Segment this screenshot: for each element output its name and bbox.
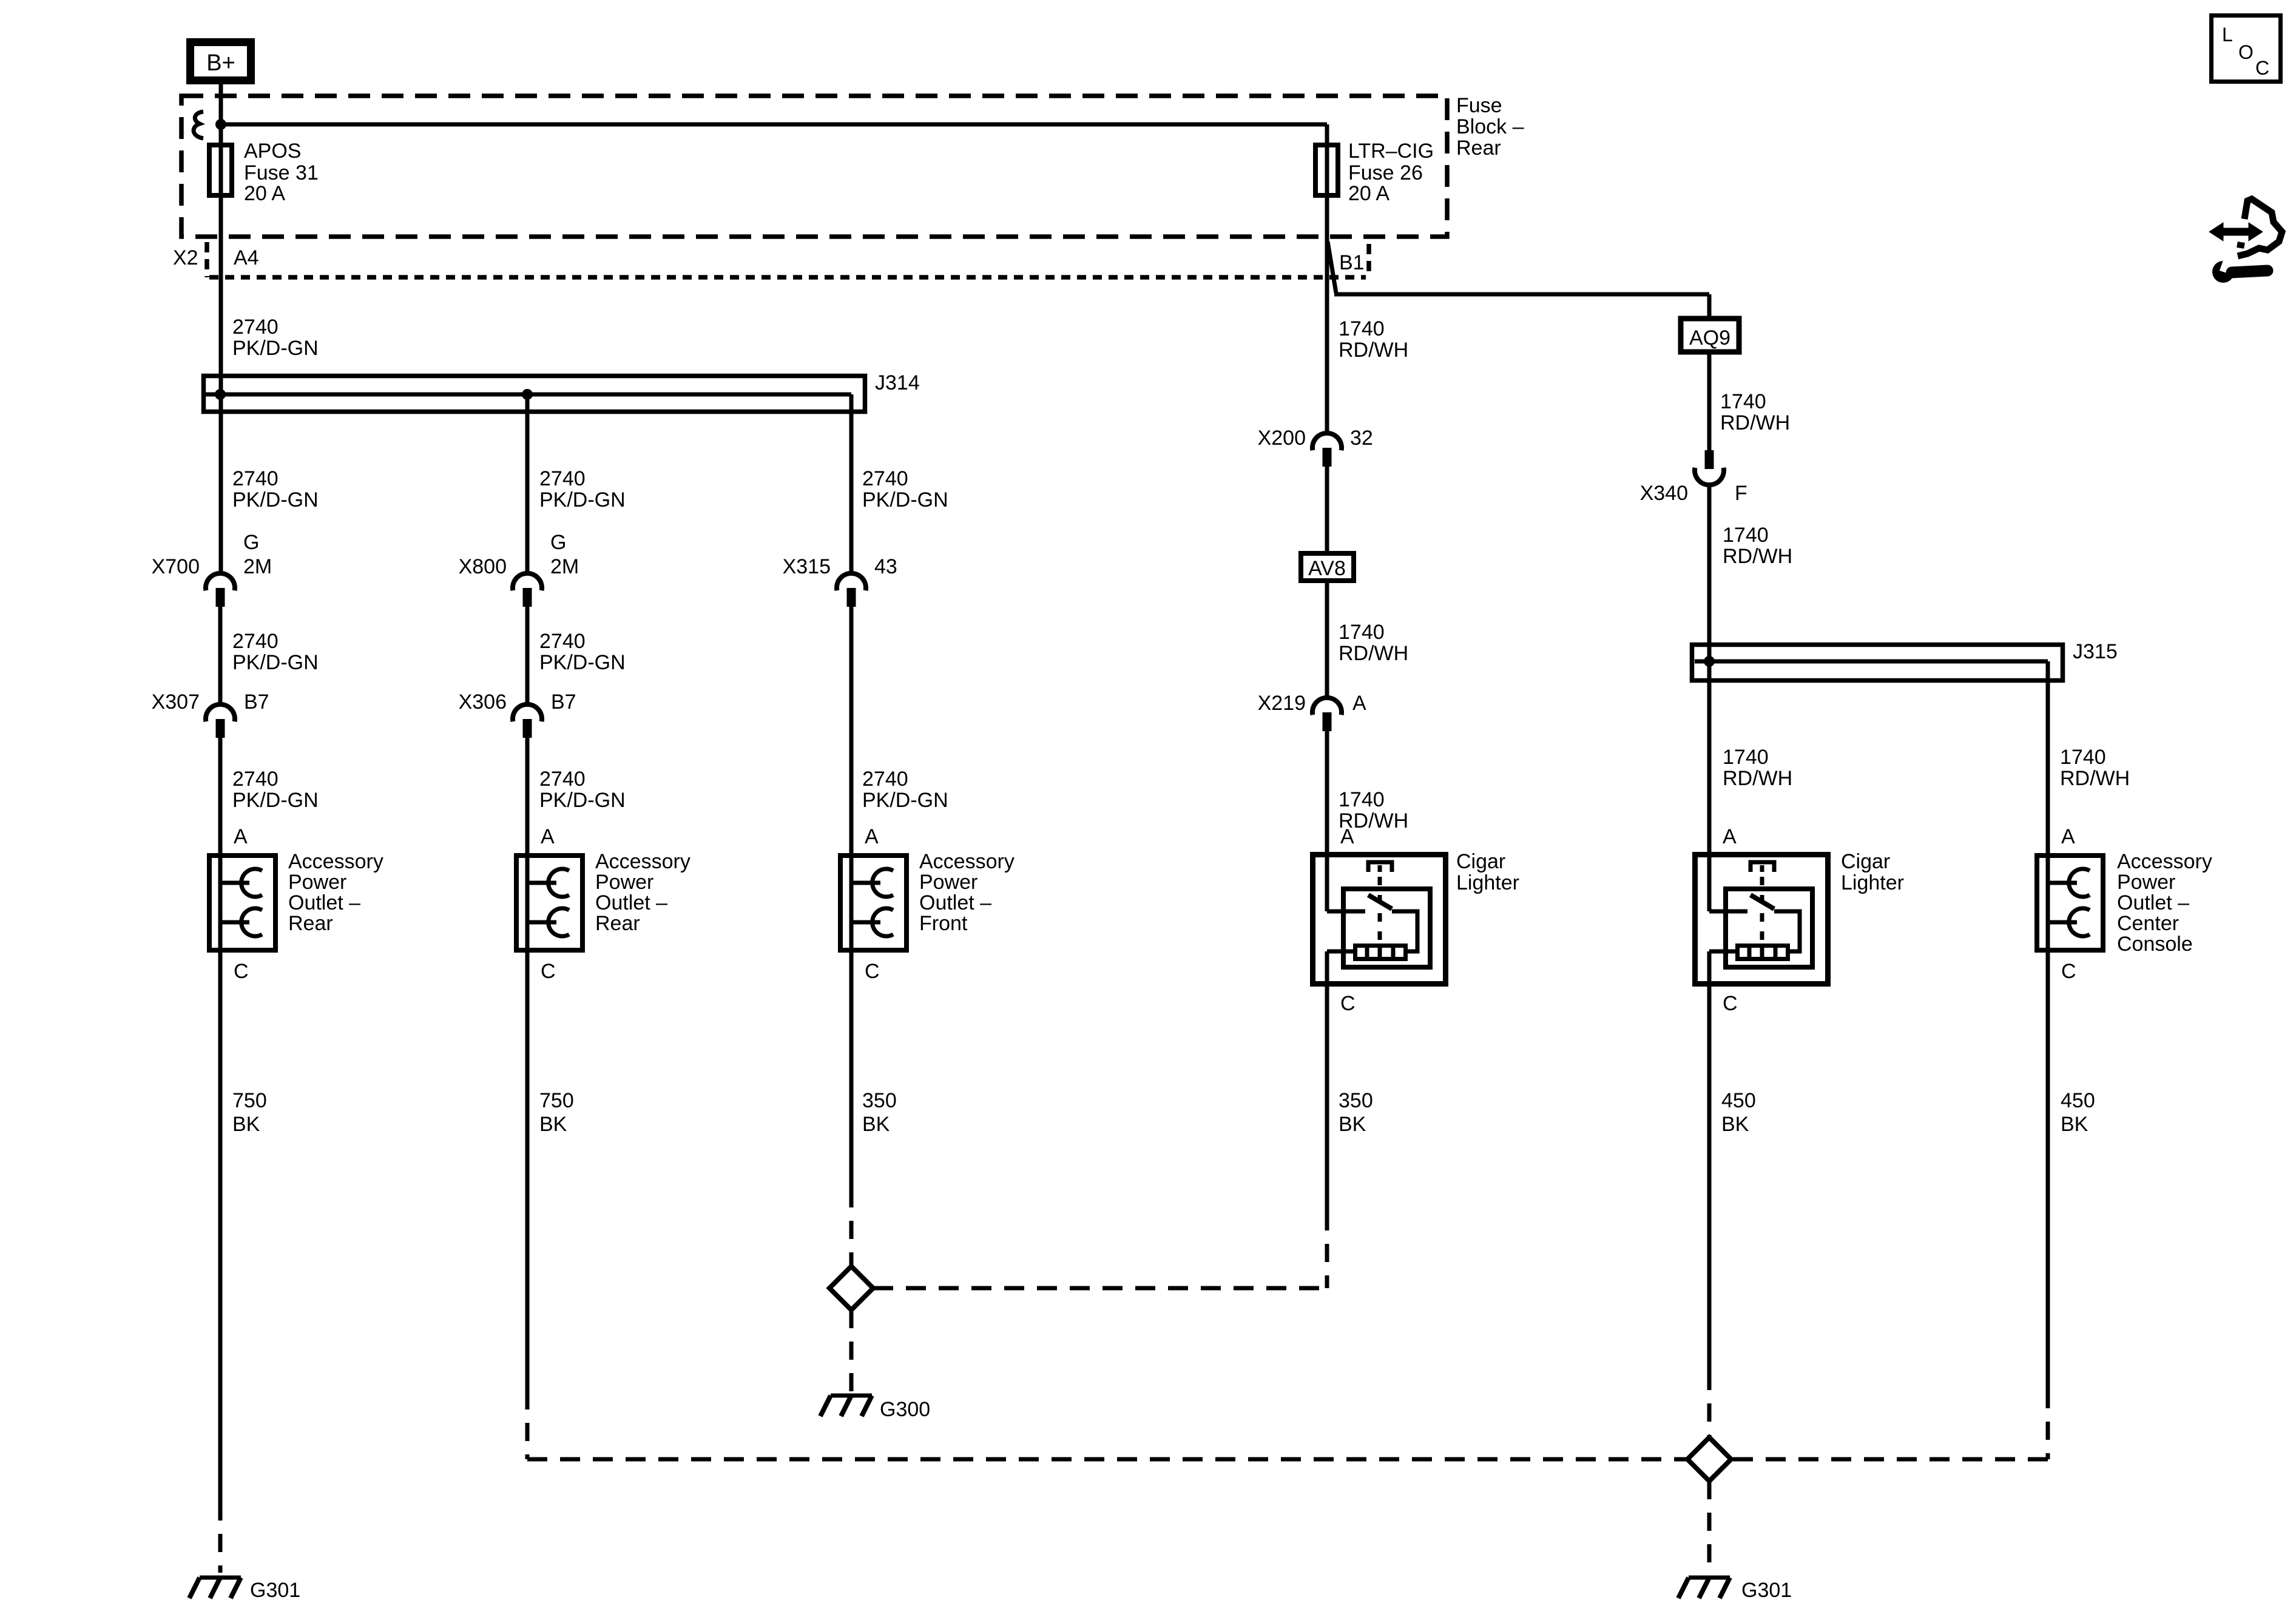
svg-text:C: C [865, 960, 880, 983]
svg-text:PK/D-GN: PK/D-GN [232, 789, 319, 812]
svg-text:X200: X200 [1258, 427, 1306, 450]
svg-text:X2: X2 [173, 246, 198, 269]
svg-text:2740: 2740 [232, 467, 279, 490]
svg-text:2740: 2740 [232, 768, 279, 791]
svg-text:G: G [243, 531, 259, 554]
svg-text:PK/D-GN: PK/D-GN [539, 789, 626, 812]
svg-text:BK: BK [1339, 1113, 1366, 1136]
svg-text:BK: BK [1721, 1113, 1749, 1136]
svg-text:L: L [2222, 24, 2233, 46]
svg-text:RD/WH: RD/WH [1723, 545, 1792, 568]
svg-text:C: C [541, 960, 556, 983]
svg-text:J314: J314 [875, 371, 920, 394]
svg-text:X307: X307 [152, 690, 200, 714]
svg-text:PK/D-GN: PK/D-GN [539, 488, 626, 511]
svg-text:PK/D-GN: PK/D-GN [862, 488, 948, 511]
svg-text:2740: 2740 [539, 467, 586, 490]
svg-text:BK: BK [2061, 1113, 2088, 1136]
svg-text:APOS: APOS [244, 140, 301, 163]
svg-text:J315: J315 [2073, 640, 2118, 663]
svg-text:350: 350 [1339, 1089, 1373, 1112]
svg-text:Fuse 31: Fuse 31 [244, 161, 319, 184]
svg-text:2740: 2740 [539, 768, 586, 791]
svg-text:X700: X700 [152, 555, 200, 578]
svg-text:PK/D-GN: PK/D-GN [232, 488, 319, 511]
svg-text:A4: A4 [234, 246, 259, 269]
svg-text:Power: Power [288, 871, 346, 894]
svg-text:RD/WH: RD/WH [1339, 642, 1408, 665]
svg-text:F: F [1735, 482, 1747, 505]
svg-text:O: O [2238, 41, 2254, 63]
svg-text:Outlet –: Outlet – [919, 891, 991, 914]
svg-text:Cigar: Cigar [1841, 850, 1890, 873]
svg-text:B+: B+ [206, 50, 235, 76]
svg-text:Center: Center [2117, 912, 2179, 935]
svg-text:1740: 1740 [1339, 621, 1385, 644]
svg-text:AV8: AV8 [1308, 557, 1346, 580]
svg-text:1740: 1740 [1339, 317, 1385, 340]
svg-text:Console: Console [2117, 933, 2193, 956]
svg-text:32: 32 [1350, 427, 1373, 450]
svg-text:Power: Power [2117, 871, 2175, 894]
svg-text:B7: B7 [244, 690, 269, 714]
svg-text:X315: X315 [783, 555, 831, 578]
svg-text:43: 43 [874, 555, 897, 578]
svg-text:Fuse: Fuse [1456, 94, 1502, 117]
svg-text:X800: X800 [459, 555, 507, 578]
svg-text:750: 750 [232, 1089, 267, 1112]
svg-text:A: A [865, 825, 879, 848]
svg-text:Lighter: Lighter [1841, 871, 1904, 894]
svg-text:RD/WH: RD/WH [1339, 339, 1408, 362]
svg-text:2M: 2M [550, 555, 579, 578]
svg-text:1740: 1740 [2060, 746, 2106, 769]
svg-text:Accessory: Accessory [2117, 850, 2212, 873]
svg-text:A: A [1340, 825, 1354, 848]
svg-text:1740: 1740 [1723, 524, 1769, 547]
svg-text:Lighter: Lighter [1456, 871, 1519, 894]
svg-text:PK/D-GN: PK/D-GN [862, 789, 948, 812]
svg-text:1740: 1740 [1339, 788, 1385, 811]
svg-text:450: 450 [2061, 1089, 2095, 1112]
svg-text:C: C [2061, 960, 2076, 983]
svg-text:LTR–CIG: LTR–CIG [1348, 140, 1434, 163]
svg-text:2740: 2740 [539, 630, 586, 653]
svg-text:A: A [1352, 692, 1366, 715]
svg-text:Power: Power [919, 871, 977, 894]
svg-text:Fuse 26: Fuse 26 [1348, 161, 1423, 184]
svg-text:Rear: Rear [1456, 137, 1501, 160]
svg-text:A: A [1723, 825, 1737, 848]
svg-text:Accessory: Accessory [919, 850, 1015, 873]
svg-text:2740: 2740 [232, 630, 279, 653]
svg-text:Block –: Block – [1456, 115, 1524, 138]
svg-text:BK: BK [232, 1113, 260, 1136]
svg-text:Outlet –: Outlet – [2117, 891, 2189, 914]
svg-text:C: C [2255, 57, 2269, 79]
svg-text:Outlet –: Outlet – [288, 891, 360, 914]
svg-text:2740: 2740 [862, 467, 908, 490]
svg-text:G300: G300 [880, 1398, 930, 1421]
svg-text:X306: X306 [459, 690, 507, 714]
svg-text:Power: Power [595, 871, 653, 894]
svg-text:20 A: 20 A [244, 182, 285, 205]
svg-text:Cigar: Cigar [1456, 850, 1505, 873]
svg-text:450: 450 [1721, 1089, 1756, 1112]
svg-text:RD/WH: RD/WH [1720, 411, 1790, 434]
svg-text:BK: BK [539, 1113, 567, 1136]
svg-text:A: A [2061, 825, 2075, 848]
svg-text:B1: B1 [1339, 251, 1365, 274]
svg-text:2740: 2740 [232, 316, 279, 339]
svg-text:Accessory: Accessory [288, 850, 383, 873]
svg-text:RD/WH: RD/WH [1723, 767, 1792, 790]
svg-text:C: C [1340, 992, 1356, 1015]
svg-text:Rear: Rear [288, 912, 333, 935]
svg-text:RD/WH: RD/WH [2060, 767, 2130, 790]
svg-text:Rear: Rear [595, 912, 640, 935]
svg-text:G301: G301 [1741, 1579, 1792, 1602]
svg-text:G301: G301 [250, 1579, 300, 1602]
svg-text:B7: B7 [551, 690, 576, 714]
svg-text:PK/D-GN: PK/D-GN [232, 651, 319, 674]
svg-text:350: 350 [862, 1089, 897, 1112]
svg-text:PK/D-GN: PK/D-GN [232, 337, 319, 360]
svg-text:A: A [541, 825, 555, 848]
svg-text:C: C [1723, 992, 1738, 1015]
svg-text:Accessory: Accessory [595, 850, 690, 873]
svg-text:1740: 1740 [1723, 746, 1769, 769]
svg-text:PK/D-GN: PK/D-GN [539, 651, 626, 674]
svg-text:X340: X340 [1640, 482, 1688, 505]
svg-text:2M: 2M [243, 555, 272, 578]
svg-text:1740: 1740 [1720, 390, 1766, 413]
svg-text:20 A: 20 A [1348, 182, 1389, 205]
svg-text:X219: X219 [1258, 692, 1306, 715]
svg-text:2740: 2740 [862, 768, 908, 791]
svg-text:AQ9: AQ9 [1689, 326, 1730, 349]
svg-text:Front: Front [919, 912, 968, 935]
svg-text:A: A [234, 825, 248, 848]
svg-text:BK: BK [862, 1113, 890, 1136]
svg-text:G: G [550, 531, 566, 554]
svg-text:Outlet –: Outlet – [595, 891, 667, 914]
svg-text:C: C [234, 960, 249, 983]
svg-text:750: 750 [539, 1089, 574, 1112]
